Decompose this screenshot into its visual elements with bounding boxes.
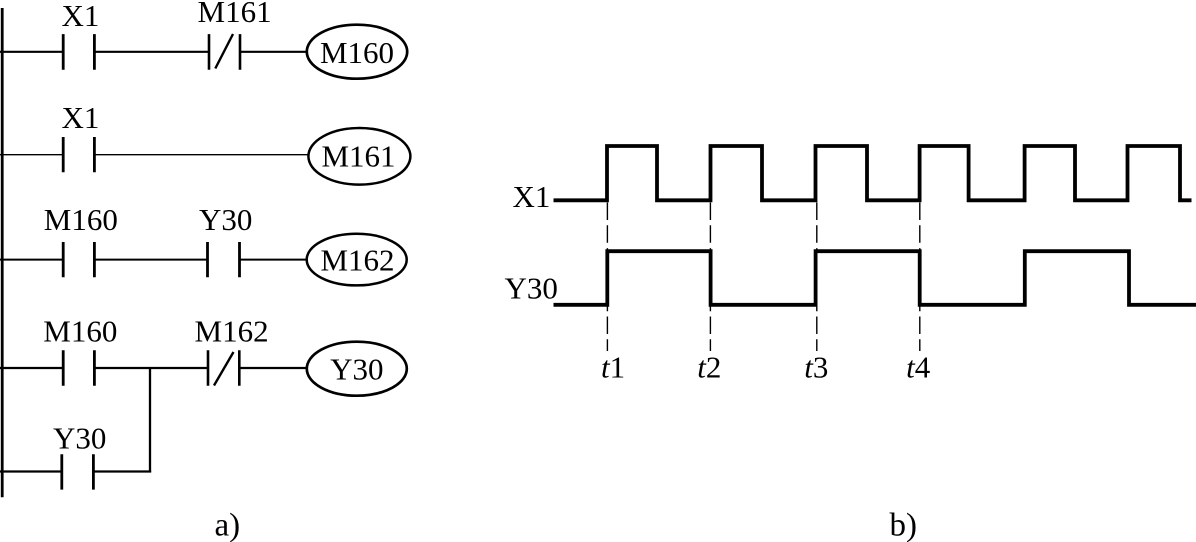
caption a)	[215, 508, 241, 542]
svg-text:t3: t3	[804, 349, 828, 384]
label M162 (rung 4)	[195, 314, 269, 349]
wire branch Y30 to junction	[93, 470, 151, 472]
svg-text:M161: M161	[321, 139, 395, 174]
wire rung4 rail to contact M160	[0, 367, 63, 369]
svg-text:Y30: Y30	[199, 202, 252, 237]
svg-text:X1: X1	[513, 179, 551, 214]
wire rung1 rail to contact X1	[0, 51, 63, 53]
coil M161 (rung 2)	[308, 128, 410, 185]
label t4	[906, 349, 931, 384]
svg-text:Y30: Y30	[505, 270, 558, 305]
contact X1 (NO, rung 1)	[63, 34, 94, 70]
svg-text:t1: t1	[601, 349, 625, 384]
svg-text:M160: M160	[320, 35, 394, 70]
svg-text:M161: M161	[198, 0, 272, 29]
contact M160 (NO, rung 3)	[63, 242, 94, 277]
label t1	[601, 349, 625, 384]
coil M160 (rung 1)	[307, 25, 407, 79]
wire rung1 M161 to coil	[240, 51, 308, 53]
contact M160 (NO, rung 4)	[63, 350, 94, 385]
svg-text:M160: M160	[43, 314, 117, 349]
dashed time marker t3	[816, 203, 818, 352]
wire rung2 X1 to coil	[94, 154, 308, 156]
label Y30 (rung 3)	[199, 202, 252, 237]
contact M161 (NC, rung 1)	[209, 34, 240, 70]
svg-text:M160: M160	[44, 202, 118, 237]
label t2	[697, 349, 721, 384]
label Y30 (branch rung)	[53, 421, 106, 456]
svg-text:t4: t4	[906, 349, 931, 384]
coil M162 (rung 3)	[307, 234, 407, 286]
label M160 (rung 4)	[43, 314, 117, 349]
svg-text:t2: t2	[697, 349, 721, 384]
label X1 (rung 2)	[62, 100, 100, 135]
svg-text:M162: M162	[195, 314, 269, 349]
label M161 (rung 1)	[198, 0, 272, 29]
branch junction vertical wire	[149, 368, 151, 472]
wire rung3 M160 to Y30 contact	[94, 259, 207, 261]
wire rung3 rail to contact M160	[0, 259, 63, 261]
wire branch rung rail to contact Y30	[0, 470, 62, 472]
waveform X1	[554, 146, 1192, 200]
wire rung3 Y30 to coil	[240, 259, 307, 261]
contact X1 (NO, rung 2)	[63, 137, 94, 172]
wire rung4 M162 to coil	[239, 367, 307, 369]
label X1 (timing trace)	[513, 179, 551, 214]
coil Y30 (rung 4)	[307, 342, 407, 396]
wire rung4 junction to M162 contact	[150, 367, 208, 369]
wire rung4 M160 to branch junction	[94, 367, 150, 369]
contact Y30 (NO, rung 3)	[208, 242, 240, 277]
svg-text:X1: X1	[62, 100, 100, 135]
contact Y30 (NO, branch rung)	[62, 454, 94, 489]
label Y30 (timing trace)	[505, 270, 558, 305]
left power rail	[1, 8, 4, 497]
label t3	[804, 349, 828, 384]
svg-text:M162: M162	[320, 242, 394, 277]
svg-text:b): b)	[890, 508, 918, 542]
svg-text:Y30: Y30	[53, 421, 106, 456]
wire rung2 rail to contact X1	[0, 154, 63, 156]
svg-text:X1: X1	[62, 0, 100, 33]
caption b)	[890, 508, 918, 542]
dashed time marker t4	[919, 203, 921, 352]
label X1 (rung 1)	[62, 0, 100, 33]
contact M162 (NC, rung 4)	[208, 350, 239, 385]
dashed time marker t2	[709, 203, 711, 352]
wire rung1 X1 to M161 contact	[94, 51, 209, 53]
waveform Y30	[554, 251, 1196, 305]
label M160 (rung 3)	[44, 202, 118, 237]
svg-text:Y30: Y30	[330, 351, 383, 386]
svg-text:a): a)	[215, 508, 241, 542]
dashed time marker t1	[606, 203, 608, 352]
